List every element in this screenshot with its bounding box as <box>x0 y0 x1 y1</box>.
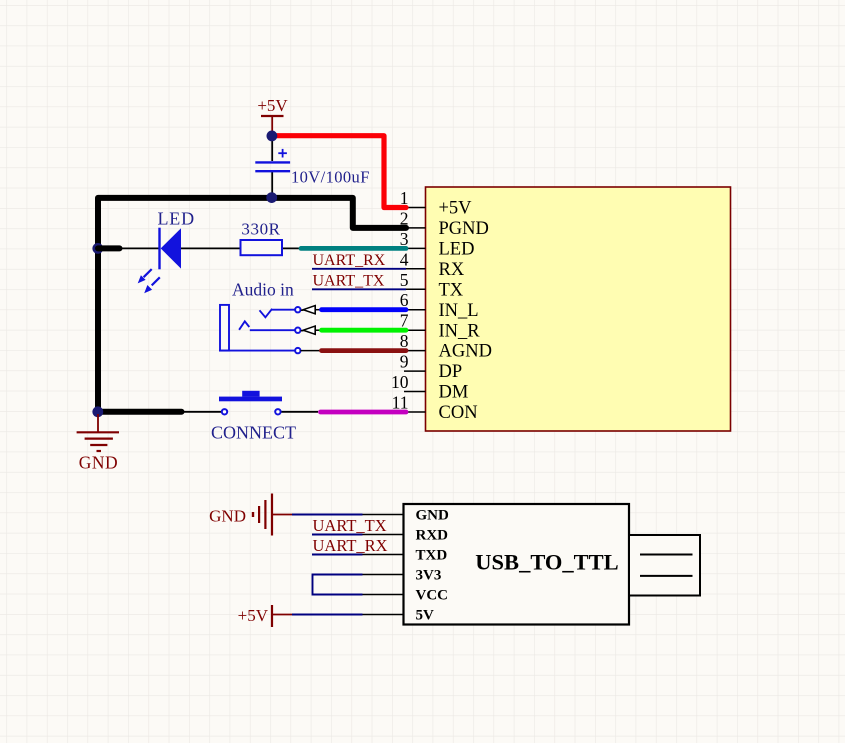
svg-text:CONNECT: CONNECT <box>211 423 296 443</box>
svg-text:USB_TO_TTL: USB_TO_TTL <box>475 550 618 575</box>
svg-text:PGND: PGND <box>439 219 489 239</box>
pin 5 stub <box>404 288 426 290</box>
svg-text:8: 8 <box>400 331 409 351</box>
USB plug symbol <box>629 535 700 596</box>
svg-text:IN_L: IN_L <box>439 301 479 321</box>
svg-text:4: 4 <box>400 249 409 269</box>
svg-text:RXD: RXD <box>416 528 449 544</box>
wire blue IN_L <box>322 307 407 312</box>
wire red +5V <box>272 136 406 208</box>
wire navy 3v3-vcc loop <box>313 575 363 595</box>
audio jack pin circles <box>295 307 300 353</box>
svg-text:11: 11 <box>392 393 409 413</box>
svg-text:330R: 330R <box>241 220 280 239</box>
resistor R1 330R <box>241 240 283 255</box>
pin 10 stub <box>404 391 426 393</box>
LED emission arrows <box>138 269 160 293</box>
pin 4 stub <box>404 268 426 270</box>
svg-text:Audio in: Audio in <box>232 280 294 300</box>
wire navy uart rx <box>312 268 406 270</box>
svg-text:UART_TX: UART_TX <box>313 516 387 535</box>
pin names USB_TO_TTL <box>416 508 450 624</box>
junction node led branch <box>92 243 103 254</box>
wire thick black GND rail <box>98 198 406 412</box>
pin 6 stub <box>404 309 426 311</box>
junction node gnd <box>92 406 103 417</box>
pin 8 stub <box>404 350 426 352</box>
audio jack ring contact <box>239 321 249 330</box>
pin 11 stub <box>404 411 426 413</box>
svg-text:UART_RX: UART_RX <box>313 536 388 555</box>
svg-text:GND: GND <box>416 508 450 524</box>
wire led stub thick <box>98 245 120 251</box>
wire navy 5v <box>292 614 363 616</box>
svg-text:LED: LED <box>158 209 195 229</box>
pin stubs U1 <box>404 208 426 413</box>
pin 9 stub <box>404 370 426 372</box>
audio jack J1 body <box>220 305 229 351</box>
wire magenta CON <box>321 410 407 415</box>
svg-text:RX: RX <box>439 260 465 280</box>
wire teal LED net <box>301 246 406 251</box>
wire led-resistor <box>181 247 241 249</box>
LED D1 <box>138 228 181 294</box>
ground symbol top-left <box>77 414 119 451</box>
svg-text:IN_R: IN_R <box>439 321 481 341</box>
wire navy txd <box>312 554 363 556</box>
wire navy gnd <box>292 514 363 516</box>
input arrow pin6 <box>301 305 322 314</box>
svg-text:CON: CON <box>439 403 478 423</box>
wire resistor-teal <box>282 247 301 249</box>
pushbutton right lead <box>281 411 318 413</box>
svg-text:3: 3 <box>400 229 409 249</box>
pushbutton left lead <box>182 411 222 413</box>
pin names U1 <box>439 199 492 424</box>
audio jack sleeve wire <box>219 350 295 352</box>
power ground symbol bottom <box>253 494 292 536</box>
svg-text:GND: GND <box>209 507 246 526</box>
svg-text:9: 9 <box>400 352 409 372</box>
component USB_TO_TTL box <box>404 504 630 625</box>
svg-text:VCC: VCC <box>416 588 449 604</box>
capacitor C1 leads <box>271 137 273 196</box>
pin 7 stub <box>404 329 426 331</box>
wire navy rxd <box>312 534 363 536</box>
svg-text:5V: 5V <box>416 608 435 624</box>
pin 1 stub <box>404 207 426 209</box>
wire maroon AGND <box>322 348 407 353</box>
svg-text:3V3: 3V3 <box>416 568 442 584</box>
svg-text:GND: GND <box>79 453 118 473</box>
input arrow pin7 <box>301 326 322 335</box>
audio jack tip contact <box>260 309 273 318</box>
svg-text:UART_RX: UART_RX <box>313 252 386 269</box>
svg-text:10V/100uF: 10V/100uF <box>291 168 370 187</box>
pin stubs USB_TO_TTL <box>363 515 404 615</box>
pin 3 stub <box>404 247 426 249</box>
svg-text:TX: TX <box>439 280 464 300</box>
svg-text:7: 7 <box>400 311 409 331</box>
svg-text:LED: LED <box>439 240 475 260</box>
svg-text:DP: DP <box>439 362 463 382</box>
junction node +5V/cap <box>267 131 278 142</box>
pin numbers U1 <box>391 188 409 413</box>
svg-text:5: 5 <box>400 270 409 290</box>
pin 2 stub <box>404 227 426 229</box>
capacitor C1 plates <box>255 149 290 171</box>
power port +5V bottom <box>271 605 273 627</box>
svg-text:DM: DM <box>439 383 469 403</box>
svg-text:AGND: AGND <box>439 342 492 362</box>
wire pin8 stub black <box>301 350 322 352</box>
junction node cap/gnd-wire <box>266 192 277 203</box>
pushbutton S1 <box>219 397 282 402</box>
svg-text:6: 6 <box>400 290 409 310</box>
svg-text:TXD: TXD <box>416 548 448 564</box>
power port +5V top <box>261 116 284 133</box>
wire led thin <box>120 247 160 249</box>
svg-text:+5V: +5V <box>238 606 269 625</box>
svg-text:+5V: +5V <box>439 199 473 219</box>
wire green IN_R <box>322 328 407 333</box>
wire navy uart tx <box>312 288 406 290</box>
component U1 yellow box <box>426 187 731 431</box>
svg-text:10: 10 <box>391 372 409 392</box>
svg-text:UART_TX: UART_TX <box>313 273 385 290</box>
svg-text:+5V: +5V <box>257 96 288 115</box>
